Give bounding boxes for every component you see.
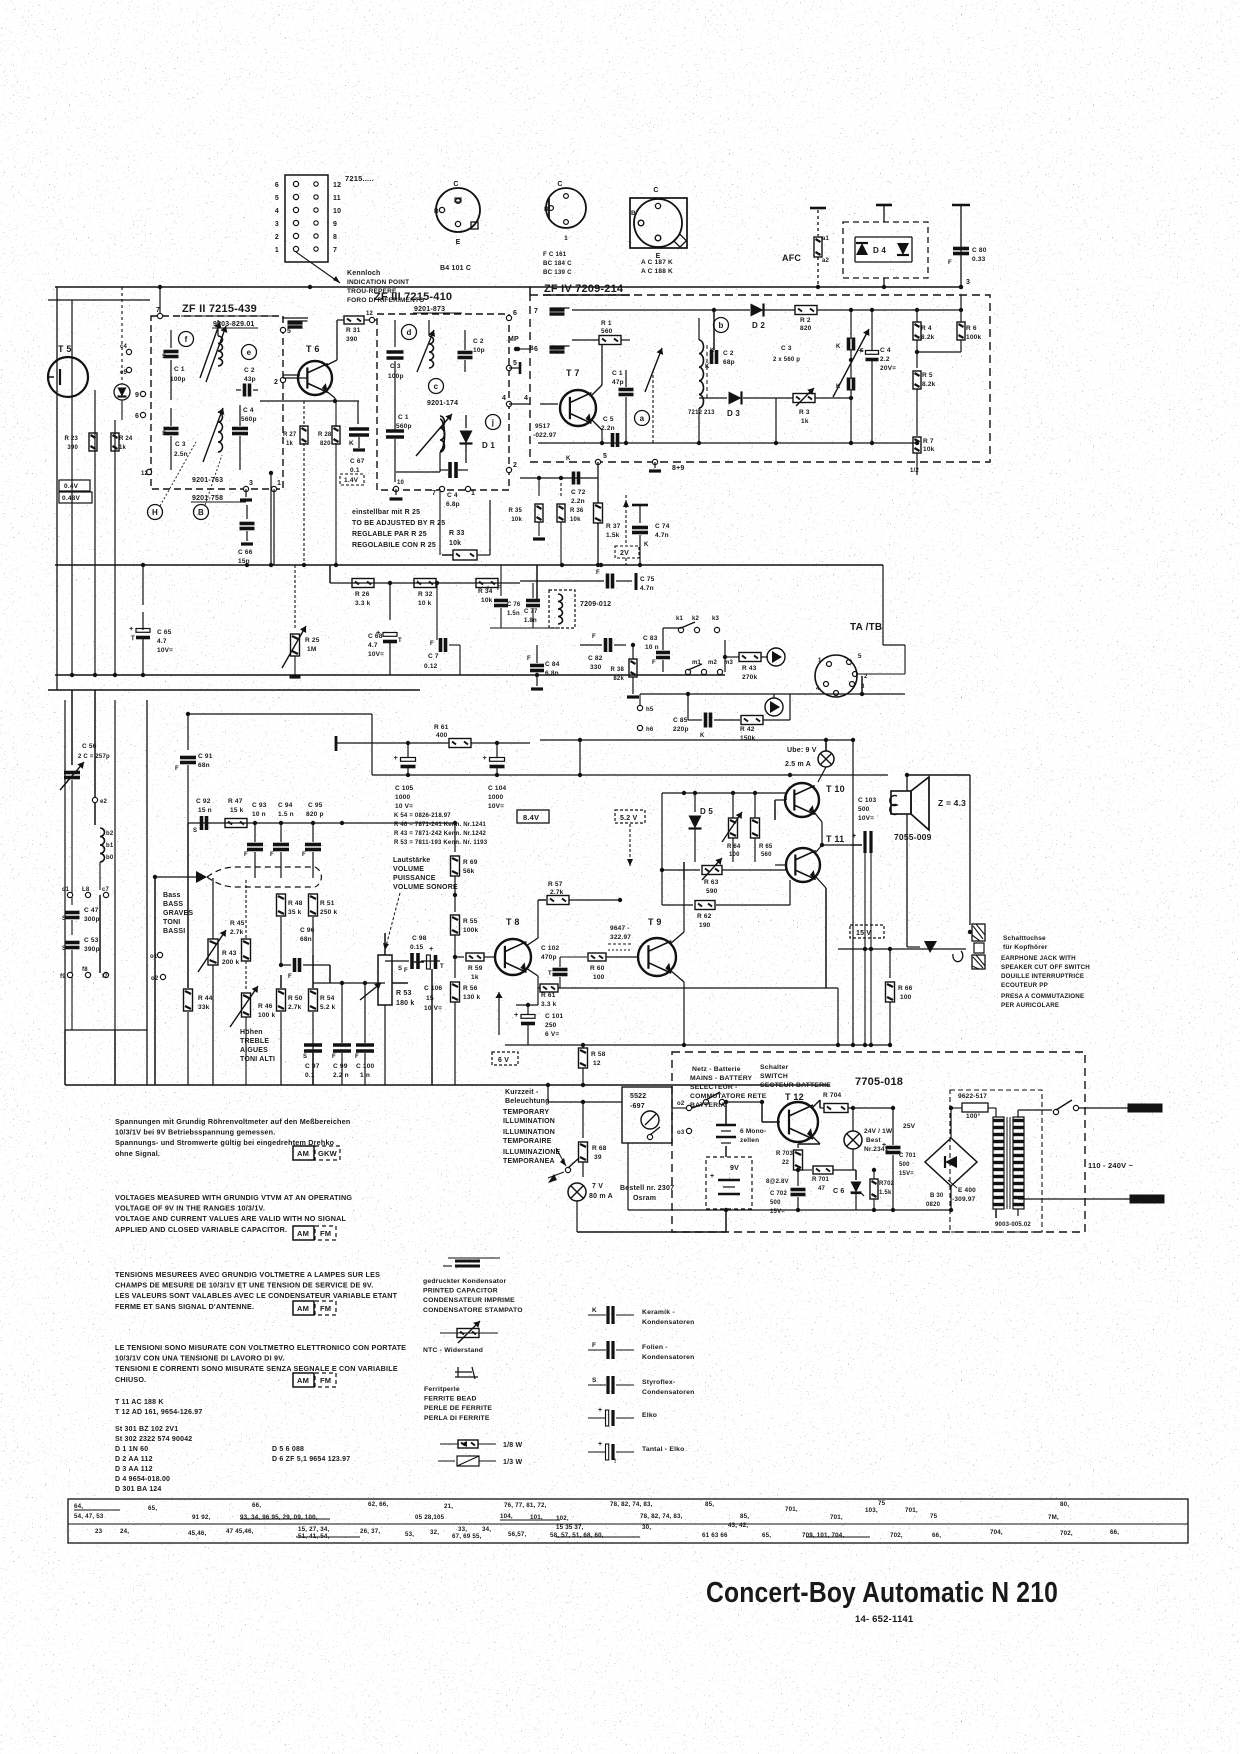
svg-text:85,: 85, [740,1513,749,1520]
svg-text:K: K [836,344,841,350]
capacitor C66 15n [238,505,255,565]
resistor R66 100 [886,949,913,1047]
capacitor C85 220p [673,692,740,739]
trimmer a [635,348,664,443]
transistor T11 [775,834,851,988]
svg-text:C 105: C 105 [395,785,414,792]
svg-text:709, 101, 704,: 709, 101, 704, [802,1532,844,1539]
svg-text:Keramik -: Keramik - [642,1309,675,1316]
svg-text:b1: b1 [106,843,114,849]
svg-text:10 n: 10 n [252,811,266,818]
svg-text:C 1: C 1 [612,370,623,377]
svg-text:R 46 = 7871-241 Kenn. Nr.1241: R 46 = 7871-241 Kenn. Nr.1241 [394,822,486,828]
transistor pinout B4 101 C [434,181,480,272]
svg-text:b0: b0 [106,855,114,861]
svg-text:43, 42,: 43, 42, [728,1522,748,1529]
wire 628 rail [490,627,560,629]
svg-text:100p: 100p [170,376,186,383]
svg-text:D 3 AA 112: D 3 AA 112 [115,1466,153,1473]
svg-text:R 48: R 48 [288,900,303,907]
resistor R62 190 [662,880,790,929]
svg-text:22: 22 [782,1160,790,1166]
svg-text:C 101: C 101 [545,1013,564,1020]
svg-text:66,: 66, [932,1532,941,1539]
svg-text:R 42: R 42 [740,726,755,733]
wire 988 rail [600,988,840,1047]
svg-text:130 k: 130 k [463,994,480,1001]
varicap left of ZF II [114,287,132,420]
svg-text:F: F [332,1054,336,1060]
elko C76 1.5n [486,565,521,628]
svg-text:C 99: C 99 [333,1063,348,1070]
svg-text:103,: 103, [865,1507,878,1514]
svg-text:1k: 1k [119,445,127,451]
svg-text:PERLE DE FERRITE: PERLE DE FERRITE [424,1405,492,1412]
svg-text:9517: 9517 [535,423,550,430]
svg-text:Spannungen mit Grundig Röhrenv: Spannungen mit Grundig Röhrenvoltmeter a… [115,1117,350,1126]
power bottom rail [577,1143,951,1232]
labels Netz-Batterie switch [690,1064,831,1109]
resistor R37 1.5k [594,503,621,539]
svg-text:270k: 270k [742,674,757,681]
svg-text:für Kopfhörer: für Kopfhörer [1003,944,1048,951]
svg-text:Kennloch: Kennloch [347,270,381,277]
svg-text:10V=: 10V= [488,803,504,810]
tuning cap C3 2x560p [773,310,869,443]
label 9201-174 [427,400,458,407]
capacitor L2 10p [458,330,485,372]
svg-text:0.1: 0.1 [350,467,360,474]
transistor T10 [775,783,845,845]
svg-text:10V=: 10V= [368,651,384,658]
svg-text:FERME ET SANS SIGNAL D'ANT: FERME ET SANS SIGNAL D'ANTENNE. [115,1302,254,1311]
svg-text:C 96: C 96 [300,927,315,934]
svg-text:10 k: 10 k [418,600,432,607]
svg-text:NTC - Widerstand: NTC - Widerstand [423,1347,483,1354]
svg-text:6.8p: 6.8p [446,501,460,508]
resistor R54 5.2k [309,983,336,1085]
transistor T8 [495,900,538,1005]
svg-text:R 27: R 27 [283,432,297,438]
svg-text:e2: e2 [100,799,108,805]
svg-text:26, 37,: 26, 37, [360,1528,380,1535]
note French voltages [115,1270,398,1311]
svg-text:1k: 1k [471,974,479,981]
svg-text:65,: 65, [148,1505,157,1512]
svg-text:C 91: C 91 [198,753,213,760]
battery 9V box [706,1146,752,1232]
svg-text:7705-018: 7705-018 [855,1076,903,1088]
elko C105 1000u [394,743,416,810]
coil b-taps [100,828,114,890]
svg-text:VOLTAGE AND CURRENT VALUES: VOLTAGE AND CURRENT VALUES ARE VALID WIT… [115,1214,347,1223]
svg-text:+: + [483,753,488,762]
svg-text:67, 69 55,: 67, 69 55, [452,1533,482,1540]
svg-text:702,: 702, [890,1532,903,1539]
lamp X Ube [785,740,834,782]
legend ferrite bead [424,1367,492,1422]
svg-text:1: 1 [564,235,568,242]
svg-text:D 1: D 1 [482,441,495,450]
svg-text:zellen: zellen [740,1137,759,1144]
svg-text:05 28,105: 05 28,105 [415,1514,445,1521]
svg-text:ECOUTEUR PP: ECOUTEUR PP [1001,982,1048,989]
svg-text:65,: 65, [762,1532,771,1539]
label 9201-763 / 9201-758 [191,477,246,502]
svg-text:R 55: R 55 [463,918,478,925]
svg-text:VOLUME SONORE: VOLUME SONORE [393,884,458,891]
wire bus 565 [55,563,883,567]
svg-text:C 95: C 95 [308,802,323,809]
svg-text:F: F [596,570,600,576]
voltage box 8.4V [517,810,549,823]
resistor R60 100 [560,953,638,981]
svg-text:C 102: C 102 [541,945,560,952]
svg-text:8.4V: 8.4V [523,813,539,822]
svg-text:104,: 104, [500,1513,513,1520]
svg-text:6: 6 [135,413,139,420]
svg-text:4.7: 4.7 [157,638,167,645]
svg-text:590: 590 [706,888,718,895]
svg-text:C 75: C 75 [640,576,655,583]
svg-text:8+9: 8+9 [672,465,684,472]
svg-text:c4: c4 [120,344,128,350]
elko C4 2.2u 20V [859,310,897,443]
resistor R6 100k [915,295,982,354]
capacitor C4 560p [232,405,257,470]
capacitor C97 0.1u [303,1045,322,1085]
svg-text:C 3: C 3 [781,345,792,352]
svg-text:PRESA A COMMUTAZIONE: PRESA A COMMUTAZIONE [1001,993,1084,1000]
contacts o2 o3 [672,1101,692,1136]
svg-text:100k: 100k [463,927,478,934]
svg-text:C 100: C 100 [356,1063,375,1070]
svg-text:B: B [631,210,636,217]
svg-text:R 56: R 56 [463,985,478,992]
svg-text:F: F [592,634,596,640]
svg-text:D 3: D 3 [727,409,740,418]
pot R63 590 [660,858,786,895]
svg-text:T 11: T 11 [826,834,844,844]
svg-text:64,: 64, [74,1503,83,1510]
svg-text:TREBLE: TREBLE [240,1038,269,1045]
svg-text:701,: 701, [785,1506,798,1513]
svg-text:1.4V: 1.4V [344,477,359,484]
svg-text:5: 5 [858,654,862,660]
svg-text:R 703: R 703 [776,1151,793,1157]
svg-text:D 2 AA 112: D 2 AA 112 [115,1456,153,1463]
svg-text:2 C = 257p: 2 C = 257p [78,754,110,760]
label ZF IV 7209-214 [543,283,630,295]
svg-text:2.2n: 2.2n [601,425,615,432]
capacitor C2 43p [236,367,258,397]
svg-text:75: 75 [930,1513,938,1520]
svg-text:51, 41, 54,: 51, 41, 54, [298,1533,330,1540]
capacitor C4 6.8p [432,462,475,508]
svg-text:-697: -697 [630,1103,645,1110]
svg-text:f8: f8 [82,967,88,973]
resistor R24 1k [111,433,133,451]
svg-text:56,57,: 56,57, [508,1531,526,1538]
svg-text:E 400: E 400 [958,1187,976,1194]
resistor R65 560 [751,793,773,862]
svg-text:3.3 k: 3.3 k [541,1001,557,1008]
capacitor C102 470p [541,945,568,988]
svg-text:C 77: C 77 [524,609,538,615]
svg-text:j: j [491,418,494,427]
svg-text:b2: b2 [106,831,114,837]
note German voltages [115,1117,350,1158]
svg-text:C 68: C 68 [368,633,383,640]
svg-text:85,: 85, [705,1501,714,1508]
svg-text:TEMPORANEA: TEMPORANEA [503,1158,555,1165]
svg-text:R 43 = 7871-242 Kenn. Nr.1242: R 43 = 7871-242 Kenn. Nr.1242 [394,831,486,837]
svg-text:9622-517: 9622-517 [958,1093,987,1100]
wire right vertical 883 [862,565,905,694]
capacitor C93 10n [244,802,267,878]
svg-text:Folien -: Folien - [642,1344,668,1351]
svg-text:k2: k2 [692,616,700,622]
svg-text:S: S [162,431,166,437]
svg-text:ILLUMINATION: ILLUMINATION [503,1118,555,1125]
svg-text:R 701: R 701 [812,1177,829,1183]
svg-text:INDICATION POINT: INDICATION POINT [347,279,409,286]
capacitor C75 4.7n printed [520,570,655,592]
svg-text:C 74: C 74 [655,523,670,530]
subtitle 14-652-1141 [855,1614,914,1625]
node 5 and gnd 8+9 [595,453,684,478]
title Concert-Boy Automatic N 210 [706,1577,1058,1609]
wire feed power [546,1083,622,1104]
svg-text:R 59: R 59 [468,965,483,972]
svg-text:1 n: 1 n [360,1072,370,1079]
speaker Z4.3 [890,773,970,947]
elko C701 500u [882,1108,916,1210]
svg-text:701,: 701, [830,1514,843,1521]
svg-text:23: 23 [95,1528,103,1535]
svg-text:15, 27, 34,: 15, 27, 34, [298,1526,330,1533]
legend resistor 1/8W [440,1440,522,1449]
label Bass [163,892,193,935]
svg-text:62, 66,: 62, 66, [368,1501,388,1508]
svg-text:2.2 n: 2.2 n [333,1072,349,1079]
svg-text:C 3: C 3 [175,441,186,448]
svg-text:R 61: R 61 [434,724,449,731]
capacitor C5 2.2n [601,416,618,447]
resistor R35 10k [509,478,545,539]
svg-text:820: 820 [800,325,812,332]
svg-text:32,: 32, [430,1529,439,1536]
svg-text:8.2k: 8.2k [922,381,936,388]
capacitor C2 68p ZFIV [705,310,735,370]
svg-text:68p: 68p [723,359,735,366]
svg-text:1/2: 1/2 [910,468,919,474]
svg-text:Styroflex-: Styroflex- [642,1379,675,1386]
svg-text:Kurzzeit -: Kurzzeit - [505,1089,539,1096]
svg-text:C 85: C 85 [673,717,688,724]
svg-text:10k: 10k [923,446,935,453]
capacitor C74 4.7n [632,505,670,565]
svg-text:MAINS - BATTERY: MAINS - BATTERY [690,1075,753,1082]
svg-text:0.48V: 0.48V [62,495,80,502]
resistor R67 400 [336,724,530,748]
svg-text:A C 188 K: A C 188 K [641,268,673,275]
svg-text:+: + [598,1441,602,1448]
svg-text:D 2: D 2 [752,321,765,330]
semiconductor list [115,1399,350,1493]
svg-text:Elko: Elko [642,1412,657,1419]
svg-text:k1: k1 [676,616,684,622]
svg-text:C 66: C 66 [238,549,253,556]
svg-text:h5: h5 [646,707,654,713]
svg-text:ILLUMINAZIONE: ILLUMINAZIONE [503,1149,561,1156]
svg-text:15 V: 15 V [856,930,871,937]
svg-text:R 24: R 24 [119,436,133,442]
capacitor C67 0.1u K [340,401,369,485]
svg-text:-022.97: -022.97 [533,432,557,439]
svg-text:F: F [355,1054,359,1060]
svg-text:6 Mono-: 6 Mono- [740,1128,766,1135]
svg-text:9647 -: 9647 - [610,925,630,932]
mode box AM FM 2 [293,1301,336,1315]
svg-text:BC 184 C: BC 184 C [543,260,572,267]
svg-text:701,: 701, [905,1507,918,1514]
svg-text:100: 100 [729,852,740,858]
svg-text:TO BE ADJUSTED BY R 25: TO BE ADJUSTED BY R 25 [352,520,445,527]
printed capacitors pins 7/6 [530,285,963,353]
svg-text:BASSI: BASSI [163,928,185,935]
svg-text:7 V: 7 V [592,1183,603,1190]
resistor R59 1k [455,953,495,981]
svg-text:1: 1 [818,658,822,664]
svg-text:R 26: R 26 [355,591,370,598]
IF block ZF II 7215-439 [151,303,283,489]
svg-text:C 4: C 4 [880,347,891,354]
svg-text:+: + [852,833,856,840]
node H circled [148,442,197,520]
resistor R68 39 [579,1102,607,1177]
capacitor C100 1n [355,983,375,1085]
svg-text:7212 213: 7212 213 [688,410,715,416]
svg-text:180 k: 180 k [396,1000,415,1007]
wire rail 775 [372,773,888,777]
svg-text:R 31: R 31 [346,327,361,334]
svg-text:R 46: R 46 [258,1003,273,1010]
svg-text:ohne Signal.: ohne Signal. [115,1149,160,1158]
svg-text:R 34: R 34 [478,588,493,595]
elko C65 4.7u [129,565,173,675]
wire top bus [55,285,961,289]
svg-text:53,: 53, [405,1531,414,1538]
svg-text:3.3 k: 3.3 k [355,600,371,607]
svg-text:R 1: R 1 [601,320,612,327]
svg-text:R 36: R 36 [570,508,584,514]
svg-text:1k: 1k [801,418,809,425]
svg-text:TA /TB: TA /TB [850,622,882,633]
svg-text:F: F [430,641,434,647]
svg-text:35 k: 35 k [288,909,302,916]
svg-text:C 1: C 1 [174,366,185,373]
resistor R38 82k [611,643,639,697]
svg-text:1.5 n: 1.5 n [278,811,294,818]
svg-text:c1: c1 [62,887,70,893]
resistor R703 22 [776,1150,803,1186]
svg-text:R 63: R 63 [704,879,719,886]
svg-text:C: C [453,181,458,188]
svg-text:34,: 34, [482,1526,491,1533]
svg-text:R 33: R 33 [449,530,465,537]
svg-text:56k: 56k [463,868,475,875]
svg-text:LES VALEURS SONT VALABLES: LES VALEURS SONT VALABLES AVEC LE CONDEN… [115,1291,398,1300]
svg-text:9201-174: 9201-174 [427,400,458,407]
svg-text:C 2: C 2 [244,367,255,374]
svg-text:10k: 10k [481,597,493,604]
svg-text:R 43: R 43 [742,665,757,672]
svg-text:S: S [860,348,864,354]
svg-text:F: F [948,260,952,266]
svg-text:68n: 68n [300,936,312,943]
svg-text:560p: 560p [396,423,412,430]
mains lead lower [1018,1161,1164,1203]
svg-text:C 82: C 82 [588,655,603,662]
svg-text:!: ! [614,1458,616,1465]
svg-text:10 n: 10 n [645,644,659,651]
svg-text:101,: 101, [530,1514,543,1521]
svg-text:9: 9 [333,221,337,228]
svg-text:Kondensatoren: Kondensatoren [642,1319,694,1326]
elko C104 1000u [483,743,507,810]
capacitor C47 300p [62,907,100,935]
mains switch right [1018,1100,1095,1115]
svg-text:K: K [705,364,710,370]
svg-text:4: 4 [275,208,279,215]
svg-text:CHAMPS DE MESURE DE 10/3/1: CHAMPS DE MESURE DE 10/3/1V ET UNE TENSI… [115,1281,373,1290]
capacitor C7 0.12u [424,583,460,675]
svg-text:C 2: C 2 [723,350,734,357]
svg-text:C 3: C 3 [390,363,401,370]
switch box 5522-697 [622,1087,672,1143]
resistor R43 270k [723,640,768,681]
svg-text:3: 3 [966,279,970,286]
coil ZF II lower [203,408,224,462]
svg-text:B 30: B 30 [930,1193,944,1199]
capacitor C98 0.15u [385,935,440,983]
svg-text:250 k: 250 k [320,909,337,916]
svg-text:E: E [456,239,461,246]
wire tone out 983 [313,955,385,985]
capacitor C94 1.5n [270,802,294,878]
svg-text:T: T [398,638,402,644]
wire bus 675 [55,673,725,677]
svg-text:St 301 BZ 102 2V1: St 301 BZ 102 2V1 [115,1426,178,1433]
svg-text:+: + [882,1142,886,1149]
svg-text:R 32: R 32 [418,591,433,598]
voltage box 6V [492,1052,518,1065]
svg-text:10: 10 [397,480,405,486]
svg-text:TONI: TONI [163,919,180,926]
capacitor C96 68n [279,927,330,980]
svg-text:k3: k3 [712,616,720,622]
svg-text:Höhen: Höhen [240,1029,263,1036]
resistor R5 8.2k [913,371,936,436]
resistor R33 10k [440,489,490,560]
mode box AM FM 1 [293,1226,336,1240]
resistor R56 130k [451,982,481,1085]
svg-text:K: K [644,542,649,548]
coil 7212-213 [688,318,715,443]
svg-text:5: 5 [603,453,607,460]
svg-text:100: 100 [900,994,912,1001]
